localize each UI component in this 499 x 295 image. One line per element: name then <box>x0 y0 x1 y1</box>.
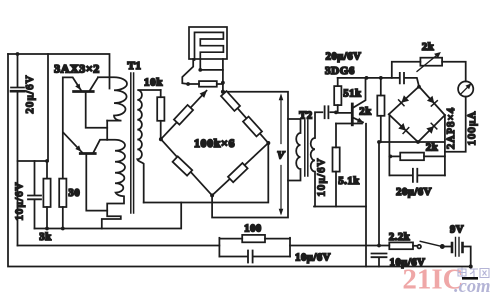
diode D2 <box>427 96 434 104</box>
watermark dianziwang <box>458 268 489 279</box>
svg-text:3AX3×2: 3AX3×2 <box>54 62 100 76</box>
resistor parallel to sensor <box>199 81 217 87</box>
transformer T1 secondary winding <box>137 90 160 203</box>
svg-text:10μ/6V: 10μ/6V <box>15 181 26 220</box>
capacitor 10u/6V (bottom middle) <box>248 251 253 263</box>
svg-text:100k×6: 100k×6 <box>194 136 235 150</box>
wire bridge right corner to T1 secondary <box>144 143 269 203</box>
wire rail2 bottom <box>18 245 220 247</box>
capacitor 10u/6V (bottom right) <box>372 254 387 258</box>
capacitor 10u/6V coupling <box>325 106 329 118</box>
wire common rail1 <box>35 203 182 229</box>
resistor 10k <box>160 90 162 97</box>
transformer T1 primary upper winding <box>98 77 127 120</box>
wire rail2 continues <box>290 245 389 247</box>
resistor bridge R1 <box>174 105 193 125</box>
resistor 51k <box>337 78 339 86</box>
capacitor C 20u/6V <box>17 54 19 87</box>
node bridge left corner <box>159 137 163 141</box>
svg-text:.com: .com <box>454 277 490 295</box>
node Q3 collector on rail <box>365 76 369 80</box>
watermark black bar <box>462 277 478 280</box>
sensor grid element <box>189 27 227 59</box>
svg-text:20μ/6V: 20μ/6V <box>25 74 36 113</box>
svg-text:5.1k: 5.1k <box>338 176 359 187</box>
resistor bridge R5 <box>243 117 262 137</box>
svg-text:20μ/6V: 20μ/6V <box>396 187 432 198</box>
bridge arm bottom-right <box>212 143 268 195</box>
transformer T2 secondary <box>311 112 323 206</box>
wire left outer vertical and bottom rail <box>8 54 471 267</box>
diode D1 <box>401 95 409 103</box>
svg-text:2.2k: 2.2k <box>389 232 410 243</box>
svg-text:2k: 2k <box>422 42 434 53</box>
bridge arm bottom-left <box>161 139 212 195</box>
svg-text:3DG6: 3DG6 <box>325 65 355 77</box>
resistor bridge R3 <box>228 163 248 182</box>
bridge arm top-right <box>223 92 268 143</box>
capacitor 20u/6V shunt <box>390 174 412 176</box>
resistor bridge R2 <box>173 156 193 175</box>
wire meter common <box>379 141 445 143</box>
wire emitter common <box>314 206 366 208</box>
resistor 100 with parallel cap network <box>218 238 220 257</box>
wire sensor inner tap <box>200 69 223 71</box>
svg-text:100: 100 <box>244 224 262 235</box>
node diode bridge top corner <box>417 85 421 89</box>
node bridge right corner <box>266 141 270 145</box>
svg-text:10μ/6V: 10μ/6V <box>317 157 328 196</box>
wire mid-left horizontal <box>18 160 48 162</box>
resistor 3k <box>46 161 48 179</box>
svg-text:100μA: 100μA <box>467 111 478 146</box>
transformer T1 core <box>131 73 134 213</box>
wire to bottom cap <box>378 142 380 246</box>
diode bridge arm top-left <box>389 87 419 115</box>
wire bridge left column <box>388 114 390 175</box>
transformer T2 primary <box>288 119 301 181</box>
svg-text:V: V <box>277 150 286 162</box>
diode D4 <box>426 126 434 134</box>
node bridge bottom corner <box>210 193 214 197</box>
capacitor to diode bridge <box>400 73 404 83</box>
resistor 2k amp load <box>380 78 382 96</box>
wire bridge right column <box>444 115 446 175</box>
node 2k top on rail <box>379 76 383 80</box>
transformer T1 primary lower winding <box>102 140 125 229</box>
capacitor C 10u/6V (left) <box>34 161 36 195</box>
diode bridge arm top-right <box>419 87 445 116</box>
svg-text:9V: 9V <box>450 225 464 236</box>
transistor Q3 3DG6 <box>351 104 354 125</box>
node at top rail <box>16 52 20 56</box>
svg-text:10μ/6V: 10μ/6V <box>295 253 331 264</box>
resistor 2k shunt <box>390 155 400 157</box>
diode D3 <box>398 123 406 131</box>
wire sensor left lead <box>182 59 199 84</box>
svg-text:10k: 10k <box>144 77 163 89</box>
switch S <box>417 245 421 249</box>
meter 100uA <box>458 81 473 96</box>
resistor 2.2k <box>389 242 413 249</box>
svg-text:2k: 2k <box>426 143 438 154</box>
svg-text:T1: T1 <box>127 60 141 72</box>
diode bridge arm bottom-right <box>418 115 445 142</box>
svg-text:T2: T2 <box>299 111 312 122</box>
battery 9V <box>444 246 452 248</box>
svg-text:30: 30 <box>69 188 81 199</box>
resistor bridge R4 <box>221 91 240 111</box>
svg-text:2k: 2k <box>359 107 371 118</box>
diode bridge arm bottom-left <box>389 114 418 142</box>
svg-text:2AP8×4: 2AP8×4 <box>446 107 457 149</box>
wire sensor right lead <box>222 59 224 92</box>
transformer T2 core <box>305 120 308 176</box>
resistor 5.1k <box>336 123 362 125</box>
arrow V output indicator <box>280 96 282 214</box>
resistor 30 <box>62 77 64 178</box>
wire amp supply rail <box>338 77 400 79</box>
wire bridge bottom loop to T2 <box>212 92 288 218</box>
potentiometer 2k top <box>392 62 421 78</box>
wire oscillator left vertical from rail <box>47 54 49 161</box>
svg-text:3k: 3k <box>39 232 51 243</box>
bridge arm top-left with wiper arrow <box>161 91 207 140</box>
svg-text:20μ/6V: 20μ/6V <box>326 52 362 63</box>
transistor Q1 3AX3 <box>74 90 94 93</box>
wire top-left supply rail <box>8 54 110 89</box>
svg-text:51k: 51k <box>343 89 361 100</box>
wire feedback tap vertical <box>106 121 108 140</box>
transistor Q2 3AX3 <box>80 152 95 155</box>
